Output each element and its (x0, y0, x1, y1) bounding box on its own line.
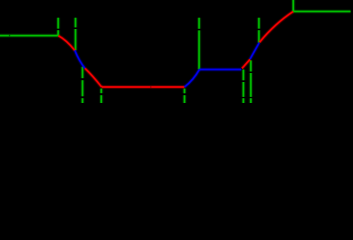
red trace segment R3, bottom horizontal (y=87.0) (102, 85, 185, 89)
green dashed vertical marker V1 (x=58.2) (56, 18, 60, 36)
blue trace segment B1, steep descending diagonal (75, 50, 85, 68)
green dashed vertical marker V2 (x=75.5) (73, 18, 77, 51)
blue trace segment B2, rising diagonal from bottom knee (185, 70, 200, 87)
green dashed vertical marker V6 (x=199.1) (197, 18, 201, 69)
green dashed vertical marker V5 (x=184.5) (182, 89, 186, 104)
red trace segment R5, upper-right diagonal into top knee (260, 12, 294, 43)
red trace segment R2, lower-left diagonal into bottom knee (85, 68, 102, 87)
green dashed horizontal asymptote, right (y=11.45) (293, 9, 350, 13)
green dashed vertical marker V9 (x=258.9) (257, 18, 261, 43)
green dashed vertical marker V7 (x=243.4) (241, 70, 245, 104)
green dashed vertical marker V3 (x=82.5) (80, 67, 84, 103)
green dashed vertical marker V4 (x=101.3) (99, 89, 103, 104)
green dashed vertical marker V10 (x=293.3, to top edge) (291, 0, 295, 11)
green dashed horizontal asymptote, left (y=35.6) (0, 33, 58, 37)
red trace segment R1, upper-left knee diagonal (58, 36, 74, 51)
green dashed vertical marker V8 (x=250.8) (249, 60, 253, 103)
red trace segment R4, short rising diagonal (242, 59, 250, 68)
blue trace segment B4, steep rising diagonal (250, 43, 259, 60)
blue trace segment B3, middle horizontal (y=69.5) (199, 67, 241, 71)
plot canvas (black background) (0, 0, 353, 103)
